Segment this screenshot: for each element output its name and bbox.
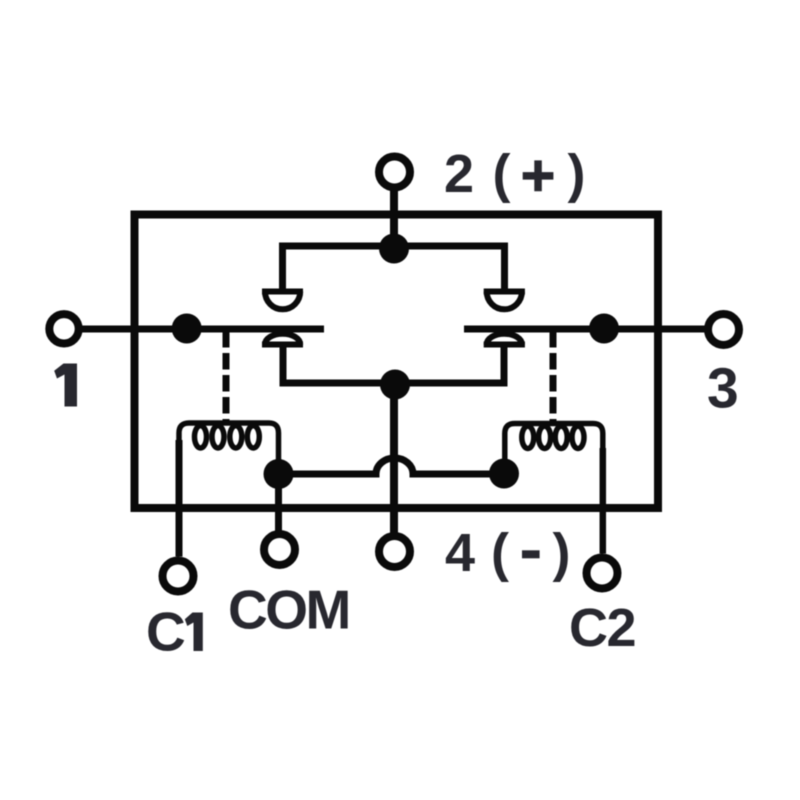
node junction armature right [589, 314, 619, 344]
wire armature right [464, 326, 705, 333]
node junction coil L1 / COM [264, 459, 294, 489]
node junction top [379, 234, 409, 264]
wire coil L1 to C1 [176, 440, 183, 557]
node junction armature left [172, 314, 202, 344]
svg-text:3: 3 [707, 357, 739, 421]
svg-text:): ) [568, 144, 586, 204]
contact right upper [484, 292, 525, 310]
wire node to terminal 4 [390, 384, 398, 533]
terminal 2 circle [379, 157, 410, 188]
coil L2 right loops [505, 424, 603, 461]
dashed link left contact to coil L1 [223, 331, 230, 421]
relay outline box [135, 215, 659, 509]
wire coil L2 to C2 [600, 448, 607, 554]
node junction center bottom [380, 370, 410, 400]
svg-text:C: C [146, 601, 186, 663]
wire top inner bus [283, 246, 505, 289]
svg-text:C2: C2 [569, 598, 635, 658]
wire armature left [80, 326, 324, 333]
node junction coil L2 / COM [489, 459, 519, 489]
dashed link right contact to coil L2 [550, 331, 557, 421]
wire terminal 2 to node [390, 191, 398, 248]
wire COM bus with hop over terminal-4 wire [279, 458, 505, 474]
svg-text:2: 2 [444, 144, 474, 204]
label 1 [54, 364, 77, 407]
svg-text:(: ( [493, 144, 511, 204]
terminal COM circle [264, 534, 295, 565]
terminal C2 circle [587, 558, 618, 589]
coil L1 left loops [179, 423, 279, 460]
contact left upper [262, 292, 303, 310]
contact left lower [262, 334, 303, 345]
svg-text:): ) [553, 523, 571, 583]
terminal 3 circle [708, 314, 739, 345]
terminal 4 circle [379, 536, 410, 567]
wire lower inner bus [283, 347, 504, 383]
svg-text:COM: COM [228, 579, 349, 641]
terminal 1 circle [49, 314, 78, 343]
wire node to COM terminal [275, 474, 282, 531]
terminal C1 circle [163, 561, 194, 592]
contact right lower [484, 334, 525, 345]
svg-text:4: 4 [445, 523, 475, 583]
svg-text:(: ( [491, 523, 509, 583]
